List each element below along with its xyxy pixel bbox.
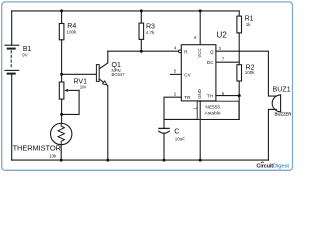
svg-text:9V: 9V <box>22 52 27 57</box>
wire reset line (Q1 collector to pin 4) <box>108 50 179 52</box>
wire TR pin 2 to capacitor <box>164 97 181 128</box>
wire TH pin 6 <box>216 95 239 97</box>
svg-text:10k: 10k <box>49 153 57 158</box>
svg-text:BUZ1: BUZ1 <box>273 87 291 94</box>
svg-text:TR: TR <box>184 95 191 100</box>
wire Q output pin 3 <box>216 50 239 52</box>
svg-text:THERMISTOR: THERMISTOR <box>13 143 62 152</box>
wire VCC pin 8 <box>199 11 201 45</box>
svg-text:BC547: BC547 <box>112 72 126 77</box>
svg-text:10uF: 10uF <box>175 137 186 142</box>
svg-text:NE555: NE555 <box>205 105 220 111</box>
wire battery top lead <box>11 11 13 45</box>
svg-text:1M: 1M <box>80 85 86 90</box>
IC U2 NE555 body <box>181 45 216 101</box>
svg-text:TH: TH <box>207 93 213 98</box>
svg-text:4.7k: 4.7k <box>146 30 155 35</box>
svg-text:1k: 1k <box>246 22 252 27</box>
resistor R2 <box>237 65 242 120</box>
label box NE555 Astable <box>197 101 239 119</box>
wire DC pin 7 <box>216 61 239 63</box>
svg-text:CircuitDigest: CircuitDigest <box>256 164 289 170</box>
transistor Q1 <box>96 51 107 160</box>
wire output to buzzer <box>239 51 276 96</box>
battery B1 <box>5 45 19 73</box>
potentiometer RV1 <box>59 74 79 123</box>
resistor R1 <box>237 11 242 65</box>
svg-text:100k: 100k <box>67 29 78 34</box>
svg-text:VCC: VCC <box>197 48 202 57</box>
capacitor C <box>159 128 170 160</box>
wire base node <box>62 73 97 75</box>
thermistor <box>51 123 72 160</box>
svg-text:BUZZER: BUZZER <box>275 111 292 116</box>
svg-text:DC: DC <box>207 60 214 65</box>
resistor R3 <box>139 11 144 51</box>
svg-text:C: C <box>174 126 180 135</box>
svg-text:CV: CV <box>184 72 191 77</box>
svg-text:GND: GND <box>197 89 202 99</box>
wire TR-TH tie <box>164 118 239 120</box>
svg-text:100k: 100k <box>245 70 256 75</box>
wire GND pin 1 <box>199 101 201 160</box>
svg-text:Astable: Astable <box>205 110 221 116</box>
wire VCC top rail <box>12 10 240 12</box>
CircuitDigest logo <box>256 162 289 170</box>
wire CV stub pin 5 <box>170 73 181 75</box>
svg-text:Q: Q <box>210 49 214 54</box>
pin 4 reset bubble <box>179 50 182 53</box>
wire GND bottom rail <box>12 159 269 161</box>
svg-text:U2: U2 <box>216 30 227 39</box>
resistor R4 <box>59 11 64 74</box>
buzzer BUZ1 <box>272 95 280 112</box>
wire battery bottom lead / left rail <box>11 75 13 161</box>
wire buzzer return <box>268 109 276 160</box>
